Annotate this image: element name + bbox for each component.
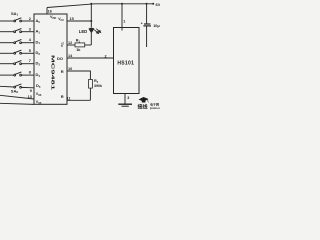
background bbox=[0, 0, 160, 110]
svg-text:10μ: 10μ bbox=[153, 24, 160, 28]
watermark bbox=[137, 97, 164, 111]
svg-text:LED: LED bbox=[79, 29, 87, 34]
wire switch row 4 bbox=[0, 52, 34, 54]
node junction capacitor top bbox=[146, 3, 148, 5]
svg-text:D5: D5 bbox=[36, 83, 41, 89]
svg-text:MC9481: MC9481 bbox=[50, 55, 56, 91]
svg-text:接线: 接线 bbox=[137, 104, 148, 111]
svg-text:SA8: SA8 bbox=[11, 88, 19, 94]
wire switch row 6 bbox=[0, 74, 34, 76]
resistor R2 bbox=[89, 80, 93, 89]
svg-text:390k: 390k bbox=[94, 84, 102, 88]
svg-text:2: 2 bbox=[105, 54, 107, 58]
wire switch row 1 bbox=[0, 20, 34, 22]
ground bbox=[118, 104, 132, 106]
wire HS101 pin3 drop bbox=[124, 94, 126, 105]
wire switch row 2 bbox=[0, 31, 34, 33]
wire switch row 3 bbox=[0, 42, 34, 44]
svg-text:DO: DO bbox=[57, 56, 63, 61]
wire top supply rail bbox=[47, 4, 154, 8]
svg-text:12: 12 bbox=[68, 41, 72, 45]
wire switch row 5 bbox=[0, 63, 34, 65]
switch 6 bbox=[14, 72, 22, 76]
switch SA1 bbox=[14, 18, 22, 22]
svg-text:SA1: SA1 bbox=[11, 11, 19, 17]
svg-text:R: R bbox=[61, 69, 64, 74]
switch 4 bbox=[14, 50, 22, 54]
svg-text:1: 1 bbox=[123, 20, 125, 24]
svg-text:3: 3 bbox=[29, 28, 31, 32]
svg-text:jiexian.com: jiexian.com bbox=[149, 107, 160, 110]
svg-text:D2: D2 bbox=[36, 50, 41, 56]
node supply end bbox=[152, 3, 154, 5]
IC U1 MC9481 body bbox=[34, 14, 67, 104]
svg-text:7: 7 bbox=[29, 59, 31, 63]
HS101 box bbox=[114, 28, 140, 94]
svg-text:电子网: 电子网 bbox=[150, 102, 159, 107]
capacitor C1 lead top bbox=[146, 4, 148, 24]
svg-text:D1: D1 bbox=[36, 39, 41, 45]
svg-text:10: 10 bbox=[68, 67, 72, 71]
wire pin10 bbox=[67, 71, 90, 80]
resistor R1 bbox=[75, 43, 85, 47]
switch 3 bbox=[14, 40, 22, 44]
LED D1 bbox=[89, 28, 100, 45]
wire pin11 bbox=[67, 99, 90, 101]
wire R2 bottom bbox=[89, 88, 91, 100]
node junction pin15/LED bbox=[90, 20, 92, 22]
switch 5 bbox=[14, 61, 22, 65]
capacitor C1 lead bottom bbox=[146, 26, 148, 47]
svg-text:6V: 6V bbox=[156, 2, 161, 7]
svg-text:5: 5 bbox=[29, 49, 31, 53]
node junction HS101 pin1 top bbox=[121, 3, 123, 5]
svg-text:D: D bbox=[61, 45, 63, 48]
wire pin14 DO to HS101 pin2 bbox=[67, 57, 114, 59]
wire LED branch riser bbox=[90, 4, 92, 28]
switch SA8 bbox=[14, 84, 22, 88]
label LED pin12 inside bbox=[61, 42, 64, 48]
svg-text:A1: A1 bbox=[36, 29, 41, 35]
wire pin16 riser bbox=[46, 8, 48, 15]
svg-text:13: 13 bbox=[28, 95, 32, 99]
svg-text:8: 8 bbox=[29, 71, 31, 75]
wire pin15 bbox=[67, 20, 91, 22]
wire switch row 7 bbox=[0, 86, 34, 88]
node junction LED riser top bbox=[90, 3, 92, 5]
svg-text:3: 3 bbox=[127, 96, 129, 100]
capacitor C1 bbox=[143, 24, 151, 26]
wire HS101 pin1 riser bbox=[121, 4, 123, 31]
switch 2 bbox=[14, 29, 22, 33]
svg-text:11: 11 bbox=[67, 96, 71, 100]
svg-text:15: 15 bbox=[70, 17, 74, 21]
wire row 8 VSS pin13 bbox=[0, 95, 34, 99]
svg-text:2: 2 bbox=[29, 17, 31, 21]
svg-text:D4: D4 bbox=[36, 72, 41, 78]
svg-text:HS101: HS101 bbox=[117, 60, 134, 66]
svg-text:16: 16 bbox=[48, 10, 52, 14]
svg-text:9: 9 bbox=[30, 89, 32, 93]
svg-text:D3: D3 bbox=[36, 61, 41, 67]
wire pin12 bbox=[67, 44, 91, 46]
svg-text:R: R bbox=[61, 94, 64, 99]
svg-text:A0: A0 bbox=[36, 18, 41, 24]
wire bottom rail bbox=[0, 103, 34, 104]
svg-text:+: + bbox=[141, 22, 143, 26]
